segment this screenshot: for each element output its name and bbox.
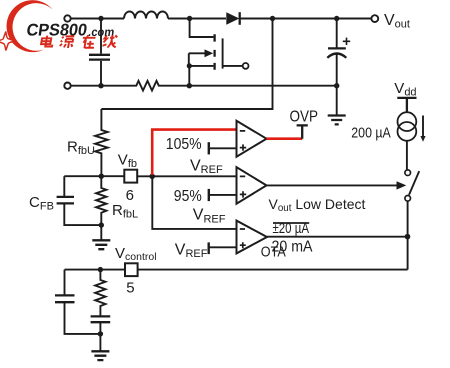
logo chinese char xian bbox=[102, 35, 118, 47]
wire current source to switch bbox=[406, 141, 408, 170]
svg-text:RfbU: RfbU bbox=[67, 138, 95, 157]
label 200 uA bbox=[351, 125, 391, 141]
node OTA output switch bbox=[405, 234, 411, 240]
svg-text:95%: 95% bbox=[174, 188, 202, 205]
label OVP bbox=[290, 108, 319, 125]
OVP terminal bbox=[297, 125, 308, 138]
svg-text:VREF: VREF bbox=[190, 157, 223, 176]
label Vout bbox=[384, 12, 410, 31]
logo chinese char zai bbox=[81, 35, 96, 48]
switch S1 bbox=[405, 170, 419, 201]
op-amp U3 OTA bbox=[237, 221, 268, 254]
pin box Vfb pin 6 bbox=[124, 170, 137, 183]
current source 200uA bbox=[398, 112, 426, 142]
wire top rail right bbox=[240, 18, 372, 20]
label Vdd bbox=[394, 80, 416, 99]
label 105% bbox=[166, 136, 202, 153]
ground fb divider bbox=[92, 225, 110, 249]
wire bottom rail left bbox=[71, 85, 134, 87]
label plus minus 20 uA with overbar bbox=[273, 221, 310, 237]
logo chinese char yuan bbox=[59, 36, 74, 48]
ground Vcontrol bbox=[91, 334, 109, 360]
node mosfet drain bbox=[187, 16, 192, 21]
wire switch down bbox=[138, 201, 408, 269]
node Vfb left bbox=[99, 174, 104, 179]
label OTA bbox=[261, 243, 286, 260]
capacitor Cout polarized bbox=[327, 19, 350, 116]
node mosfet source rail bbox=[187, 83, 192, 88]
node fb ground bbox=[99, 222, 104, 227]
resistor RfbU bbox=[95, 109, 108, 176]
wire top rail left bbox=[71, 18, 124, 20]
node output cap rail bbox=[334, 83, 339, 88]
node Vout sense bbox=[270, 16, 275, 21]
svg-text:Vcontrol: Vcontrol bbox=[115, 245, 157, 263]
label Vout Low Detect bbox=[269, 196, 366, 214]
svg-text:VREF: VREF bbox=[175, 241, 208, 260]
svg-text:5: 5 bbox=[126, 279, 134, 296]
wire Vfb rail left bbox=[64, 175, 124, 177]
svg-text:105%: 105% bbox=[166, 136, 202, 153]
label pin 6 bbox=[126, 187, 134, 204]
svg-text:RfbL: RfbL bbox=[112, 202, 138, 221]
Vdd terminal bbox=[397, 98, 416, 113]
wire Vout sense down bbox=[101, 19, 272, 110]
svg-text:OTA: OTA bbox=[261, 243, 286, 260]
ground output cap bbox=[328, 116, 346, 125]
capacitor CFB bbox=[57, 176, 102, 225]
node input cap bottom bbox=[98, 83, 103, 88]
vref tick 105% bbox=[209, 142, 237, 154]
label VREF 1 bbox=[190, 157, 223, 176]
mosfet gate terminal bbox=[243, 63, 249, 69]
svg-text:CFB: CFB bbox=[29, 194, 54, 213]
input terminal top bbox=[64, 15, 70, 21]
wire comparator2 output with arrow bbox=[267, 181, 407, 189]
svg-text:Vdd: Vdd bbox=[394, 80, 416, 99]
svg-text:±20 µA: ±20 µA bbox=[273, 221, 310, 237]
inductor L1 bbox=[124, 12, 168, 19]
resistor bottom rail bbox=[134, 81, 161, 91]
label Vcontrol bbox=[115, 245, 157, 263]
svg-text:VREF: VREF bbox=[193, 207, 226, 226]
op-amp U1 OVP comparator bbox=[237, 121, 267, 157]
wire OTA output bbox=[267, 236, 408, 238]
wire Vcontrol left bbox=[65, 269, 126, 271]
svg-text:OVP: OVP bbox=[290, 108, 319, 125]
logo chinese char dian bbox=[41, 36, 54, 47]
input terminal bottom bbox=[64, 83, 70, 89]
wire bottom rail right bbox=[161, 85, 337, 87]
capacitor Cin bbox=[89, 19, 110, 86]
svg-text:Vout: Vout bbox=[384, 12, 410, 31]
label RfbU bbox=[67, 138, 95, 157]
svg-text:200 µA: 200 µA bbox=[351, 125, 391, 141]
label VREF 3 bbox=[175, 241, 208, 260]
wire red OVP output bbox=[267, 137, 303, 140]
node Vcontrol bbox=[98, 267, 103, 272]
node Vcontrol ground bbox=[98, 331, 103, 336]
svg-text:Vout Low Detect: Vout Low Detect bbox=[269, 196, 366, 214]
label 95% bbox=[174, 188, 202, 205]
wire red Vfb to OVP comparator bbox=[152, 130, 236, 175]
label VREF 2 bbox=[193, 207, 226, 226]
node Vfb tap bbox=[149, 174, 155, 180]
wire Vfb down to OTA bbox=[152, 178, 236, 229]
diode D1 bbox=[226, 12, 239, 25]
svg-text:CPS800: CPS800 bbox=[25, 20, 88, 39]
wire Vfb rail right bbox=[137, 175, 236, 177]
vref tick 95% bbox=[209, 189, 237, 201]
op-amp U2 Vout low detect comparator bbox=[237, 167, 267, 204]
label CFB bbox=[29, 194, 54, 213]
label 20 mA bbox=[272, 238, 313, 255]
wire top rail mid bbox=[168, 18, 226, 20]
logo text CPS800 bbox=[25, 20, 116, 39]
label pin 5 bbox=[126, 279, 134, 296]
label RfbL bbox=[112, 202, 138, 221]
node output cap top bbox=[334, 16, 339, 21]
capacitor Vcontrol left branch bbox=[55, 270, 100, 334]
resistor Vcontrol branch bbox=[95, 270, 105, 316]
logo star bbox=[0, 32, 15, 51]
resistor RfbL bbox=[96, 176, 106, 225]
svg-text:6: 6 bbox=[126, 187, 134, 204]
vref tick OTA bbox=[209, 242, 237, 254]
capacitor Vcontrol series bbox=[91, 316, 111, 334]
logo watermark C swirl bbox=[7, 0, 53, 52]
transistor Q1 mosfet bbox=[187, 19, 243, 86]
svg-text:Vfb: Vfb bbox=[118, 151, 137, 170]
label Vfb bbox=[118, 151, 137, 170]
node input cap top bbox=[98, 16, 103, 21]
pin box Vcontrol pin 5 bbox=[125, 263, 138, 276]
output terminal Vout circle bbox=[371, 15, 378, 22]
